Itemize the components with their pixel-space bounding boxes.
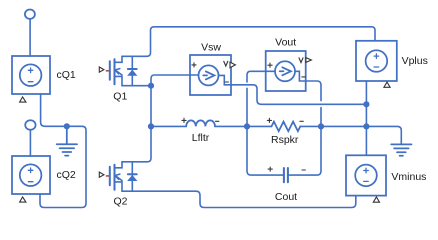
Q2 diode triangle [127,175,137,181]
node A (top-left open terminal) [25,10,35,19]
Q2 gate bar [109,167,111,186]
svg-text:Vout: Vout [275,37,296,49]
source cQ2 [12,156,50,194]
svg-text:Vsw: Vsw [201,41,221,53]
junction dot5 (Vsw- rail meets Vplus/Vminus) [363,101,369,107]
Rspkr minus mark [300,120,303,122]
Vout output V label [299,58,303,63]
Lfltr plus mark [182,118,186,122]
voltage sensor Vout [266,51,306,91]
capacitor Cout bridge wires [247,126,284,175]
port triangle under cQ2 [20,197,26,202]
Q1 source stub [115,76,123,85]
svg-text:cQ1: cQ1 [57,69,76,81]
wire cQ1 bottom to ground node and down right side [40,94,86,208]
Q2 source stub [115,182,123,191]
Vsw output V label [224,61,228,66]
svg-text:Lfltr: Lfltr [192,132,210,144]
wire dot1 down to dot2 [150,86,152,127]
junction dot3 [244,123,250,129]
Q2 red gate tick [106,175,109,177]
wire Q2 source to Vminus bottom [196,191,356,207]
Q1 gate bar [109,61,111,80]
junction dot4 [318,123,324,129]
junction dot2 (switch node) [148,123,154,129]
transistor Q1 (NMOS with body diode) [99,56,151,85]
wire Vplus bottom through dots to Vminus top [365,81,367,155]
junction: ground node [64,123,70,129]
ground (right) [391,144,411,155]
Q1 bottom rail [122,85,151,87]
svg-text:Q1: Q1 [113,91,127,103]
Q2 diode cathode bar [128,173,137,175]
resistor Rspkr [247,122,321,132]
capacitor Cout plates [284,168,288,182]
Cout minus mark [302,169,305,171]
Q1 diode cathode bar [128,68,137,70]
Cout plus mark [268,167,272,171]
transistor Q2 (NMOS with body diode) [99,162,196,191]
source cQ1 [12,56,50,94]
port triangle under Vplus [384,82,390,87]
voltage sensor Vsw [190,55,231,95]
Q1 body arrow [116,70,122,75]
svg-text:Rspkr: Rspkr [271,134,299,146]
Q1 gate port triangle [99,67,104,72]
Q2 gate port triangle [99,172,104,177]
svg-text:Vminus: Vminus [391,171,426,183]
Vsw output port triangle [230,62,235,68]
Q1 diode triangle [127,70,137,76]
Rspkr plus mark [267,118,271,122]
node B (open terminal above cQ2) [25,120,35,130]
Q1 top horizontal [122,55,147,57]
inductor Lfltr [151,120,247,126]
svg-text:cQ2: cQ2 [57,169,76,181]
Q2 body diode line [131,162,133,191]
wire Q1 drain to top rail to Vplus [147,27,375,57]
Vsw minus mark [225,81,228,83]
junction dot1 (Q1 source / Vsw+) [148,83,154,89]
Lfltr minus mark [216,120,219,122]
wire Vsw minus to lower rail [231,85,366,105]
wire dot2 down to Q2 drain [147,126,151,161]
svg-text:Vplus: Vplus [402,55,428,67]
Q1 red gate tick [106,70,109,72]
source Vplus [356,41,397,81]
Vout minus mark [302,76,305,78]
wire dot6 to right ground [366,126,401,144]
wire Vout+ down to mid rail (with crossing gap) [247,71,266,126]
Q2 top horizontal [122,161,147,163]
svg-text:Q2: Q2 [113,196,127,208]
Q1 drain stub [115,56,123,62]
Q1 channel bar [113,59,115,84]
Q1 body diode line [131,56,133,85]
source Vminus [346,155,386,195]
svg-text:Cout: Cout [275,191,297,203]
Vout output port triangle [306,58,312,63]
Q2 channel bar [113,165,115,190]
ground (left) [57,126,77,155]
port triangle under Vminus [373,197,379,202]
wire node B to cQ2 top [29,130,31,156]
wire dot1 up to Vsw plus [151,75,190,86]
Vsw plus mark [192,63,196,67]
Vout plus mark [268,63,272,67]
wire dot4 to dot5 [321,125,366,127]
Q2 drain stub [115,162,123,168]
Q2 body arrow [116,176,122,181]
Q2 bottom rail [122,190,196,192]
port triangle under cQ1 [20,97,26,102]
wire node A to cQ1 top [29,19,31,56]
wire Vout- down to dot4 (with crossing gap) [306,81,321,126]
junction dot6 (mid rail meets Vplus/Vminus) [363,123,369,129]
